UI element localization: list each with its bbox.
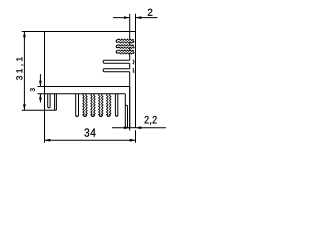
fin 2 (wavy) [83,94,85,115]
right outer wall [135,32,137,128]
arrow right end (dim 34) [130,139,136,142]
right boss left edge [124,94,126,128]
base plate top surface [38,86,130,88]
dimension 3 lower leader [39,94,41,103]
label 2,2 [145,116,157,125]
extension boss inner below [129,87,131,131]
fin 4 (wavy) [99,94,101,115]
arrow down at plate top (dim 3) [39,81,42,87]
extension line outer wall top [135,14,137,32]
label 34 [84,128,95,136]
dimension 2 right leader [136,17,158,19]
arrow up 31,1 [23,32,26,38]
dimension line 34 [45,139,136,141]
dimension line 31,1 [23,32,25,111]
right boss slit line [127,106,129,127]
threaded slot S2 (wavy) [118,45,133,47]
slot S5 [103,69,130,72]
arrow right at boss inner (dim 2,2) [124,126,130,129]
threaded slot S1 (wavy) [118,39,133,41]
dimension 2 left leader [113,17,130,19]
dimension 2,2 left leader [112,127,130,129]
base plate bottom surface [38,93,126,95]
left foot right edge (double) [54,94,56,110]
extension right wall down [135,130,137,143]
arrow left at outer wall (dim 2) [136,16,142,19]
extension line inner wall top [129,14,131,32]
slot S4 [103,60,130,63]
extension left wall down [44,110,46,143]
threaded slot S3 (wavy) [118,50,133,52]
top edge of profile with 31,1 extension line [22,31,136,33]
arrow up at plate bottom (dim 3) [39,94,42,100]
fin 6 [114,94,116,115]
label 2 [148,9,153,16]
fin 5 (wavy) [107,94,109,115]
extension line bottom left [22,109,45,111]
label 3 [30,88,35,91]
fin 3 (wavy) [91,94,92,115]
right inner wall (segments between slots) [129,32,131,40]
label 31,1 [16,57,23,80]
left outer wall [44,32,46,111]
right wall bottom edge [125,127,135,129]
arrow right at inner wall (dim 2) [124,16,130,19]
dimension 3 upper leader [39,74,41,87]
dimension 2,2 right leader [136,127,167,129]
left foot screw slit [47,94,49,107]
arrow down 31,1 [23,104,26,110]
arrow left at wall outer (dim 2,2) [136,126,142,129]
arrow left end (dim 34) [45,139,51,142]
left foot bottom edge [45,109,57,111]
fin 1 [75,94,77,115]
